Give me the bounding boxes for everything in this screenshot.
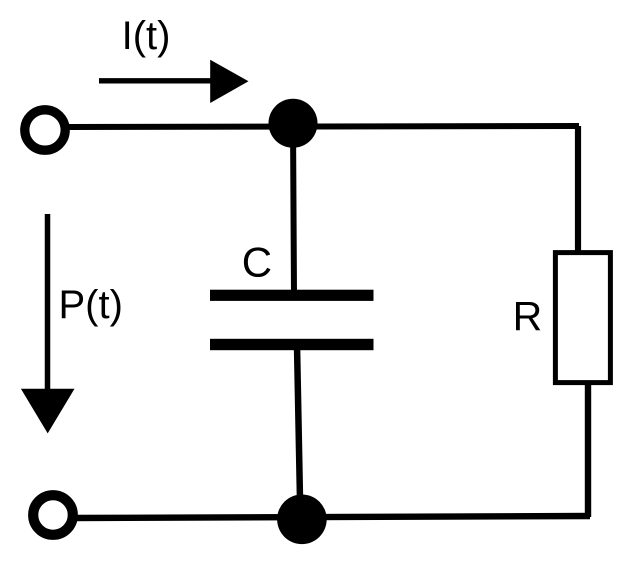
power arrow P(t) — [21, 214, 75, 433]
svg-text:R: R — [513, 293, 543, 339]
svg-text:I(t): I(t) — [122, 14, 171, 58]
node top junction — [269, 99, 318, 148]
capacitor C top plate — [210, 290, 374, 301]
resistor R — [555, 253, 610, 383]
wire right vertical upper — [575, 126, 581, 255]
wire capacitor bottom lead — [297, 345, 300, 500]
terminal bottom-left — [33, 495, 73, 535]
node bottom junction — [277, 495, 327, 545]
svg-text:C: C — [242, 239, 272, 286]
wire bottom horizontal — [70, 516, 590, 518]
wire capacitor top lead — [293, 123, 294, 295]
capacitor C bottom plate — [210, 339, 374, 350]
current arrow I(t) — [99, 60, 249, 103]
svg-text:P(t): P(t) — [59, 283, 123, 327]
wire top horizontal — [67, 126, 579, 127]
wire right vertical lower — [585, 383, 591, 517]
terminal top-left — [25, 110, 65, 150]
